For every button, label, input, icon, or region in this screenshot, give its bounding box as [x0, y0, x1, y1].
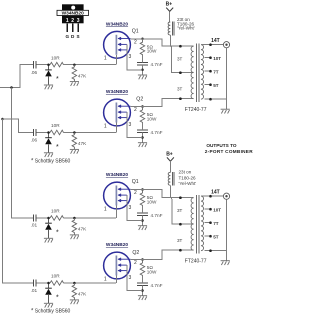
transistor Q1 W34NB20 (MOSFET symbol)	[104, 21, 139, 70]
svg-text:* Schottky SB560: * Schottky SB560	[31, 308, 71, 314]
wire: Q1 source lead	[126, 57, 128, 70]
svg-text:S: S	[77, 34, 80, 39]
node B junction	[1, 118, 4, 121]
transistor Q3 (labelled Q1) W34NB20 (MOSFET symbol)	[104, 172, 139, 221]
svg-text:W34NB20: W34NB20	[106, 242, 128, 248]
gate network Q3: capacitor .01, Schottky SB560 diode, resistor 10R, resistor 47K	[34, 209, 116, 243]
wire: Q2 drain to T1 primary bottom	[130, 99, 193, 107]
wire: input B to Q2	[3, 119, 34, 133]
wire: Q1 drain to T1 primary top	[130, 39, 193, 46]
wire: Q4 gate lead	[115, 276, 117, 284]
wire: Q1 gate lead	[115, 55, 117, 65]
transistor Q2 W34NB20 (MOSFET symbol)	[104, 89, 144, 138]
svg-text:T180-26: T180-26	[179, 175, 197, 180]
wire: Q4 source lead	[126, 278, 128, 291]
svg-text:B+: B+	[166, 2, 173, 8]
gate network Q2: capacitor .06, Schottky SB560 diode, resistor 10R, resistor 47K	[34, 123, 116, 157]
svg-text:'Yel-Wht': 'Yel-Wht'	[179, 181, 197, 186]
svg-text:3: 3	[77, 18, 80, 24]
wire: Q3 gate lead	[115, 206, 117, 219]
gate network Q4: capacitor .01, Schottky SB560 diode, resistor 10R, resistor 47K	[34, 274, 116, 308]
snubber Q2: resistor 5ohm 10W + capacitor 4.7nF + ground	[126, 105, 162, 147]
wire: B+ 1 to choke L1	[169, 11, 171, 22]
svg-text:.01: .01	[31, 288, 38, 293]
wire: bus B down to Q4 input	[3, 119, 34, 283]
svg-text:G: G	[66, 34, 70, 39]
svg-text:W34NB20: W34NB20	[106, 21, 128, 27]
wire: Q3 drain to T2 primary top	[130, 190, 193, 198]
svg-text:.01: .01	[31, 222, 38, 227]
transformer T1 FT240-77 (3T+3T primary, 14T tapped secondary, output jack, ground)	[177, 38, 230, 113]
svg-text:Q1: Q1	[132, 29, 139, 35]
svg-text:23t on: 23t on	[179, 170, 192, 175]
svg-text:2-PORT COMBINER: 2-PORT COMBINER	[205, 149, 253, 154]
svg-text:.06: .06	[31, 70, 38, 75]
snubber Q1: resistor 5ohm 10W + capacitor 4.7nF + ground	[126, 38, 162, 80]
svg-text:'Yel-Wht': 'Yel-Wht'	[177, 26, 195, 31]
wire: choke L1 down to T1 centre tap (with crossover jog)	[170, 35, 193, 73]
svg-text:* Schottky SB560: * Schottky SB560	[31, 158, 71, 164]
svg-text:Q1: Q1	[132, 179, 139, 185]
wire: B+ 2 to choke L2	[169, 161, 171, 172]
svg-text:B+: B+	[166, 151, 173, 157]
svg-text:OUTPUTS TO: OUTPUTS TO	[206, 143, 236, 148]
gate network Q1: capacitor .06, Schottky SB560 diode, resistor 10R, resistor 47K	[34, 55, 116, 89]
transformer T2 FT240-77 (3T+3T primary, 14T tapped secondary, output jack, ground)	[177, 190, 230, 265]
inductor L2 choke: 23t on T180-26	[168, 172, 174, 186]
wire: input A from left edge	[0, 65, 34, 88]
svg-text:W34NB20: W34NB20	[106, 172, 128, 178]
transistor Q4 (labelled Q2) W34NB20 (MOSFET symbol)	[104, 242, 140, 291]
TO-220 package drawing	[57, 4, 89, 39]
inductor L1 choke: 23t on T180-26	[168, 22, 174, 36]
wire: Q4 drain to T2 primary bottom	[130, 250, 193, 259]
node A junction	[10, 86, 13, 89]
wire: Q3 source lead	[126, 208, 128, 221]
svg-text:W34NB20: W34NB20	[106, 89, 128, 95]
wire: Q2 gate lead	[115, 123, 117, 133]
power B+ terminal 1 (arrow symbol)	[166, 8, 173, 12]
wire: Q2 source lead	[126, 125, 128, 138]
snubber Q3: resistor 5ohm 10W + capacitor 4.7nF + ground	[126, 188, 162, 230]
wire: bus A down to Q3 input	[12, 88, 34, 219]
svg-text:Q2: Q2	[136, 96, 143, 102]
wire: choke L2 down to T2 centre tap (with crossover jog)	[170, 185, 193, 224]
svg-text:1: 1	[66, 18, 69, 24]
svg-text:.06: .06	[31, 138, 38, 143]
svg-text:2: 2	[71, 18, 74, 24]
svg-text:Q2: Q2	[132, 250, 139, 256]
snubber Q4: resistor 5ohm 10W + capacitor 4.7nF + ground	[126, 258, 162, 300]
power B+ terminal 2 (arrow symbol)	[167, 157, 174, 161]
